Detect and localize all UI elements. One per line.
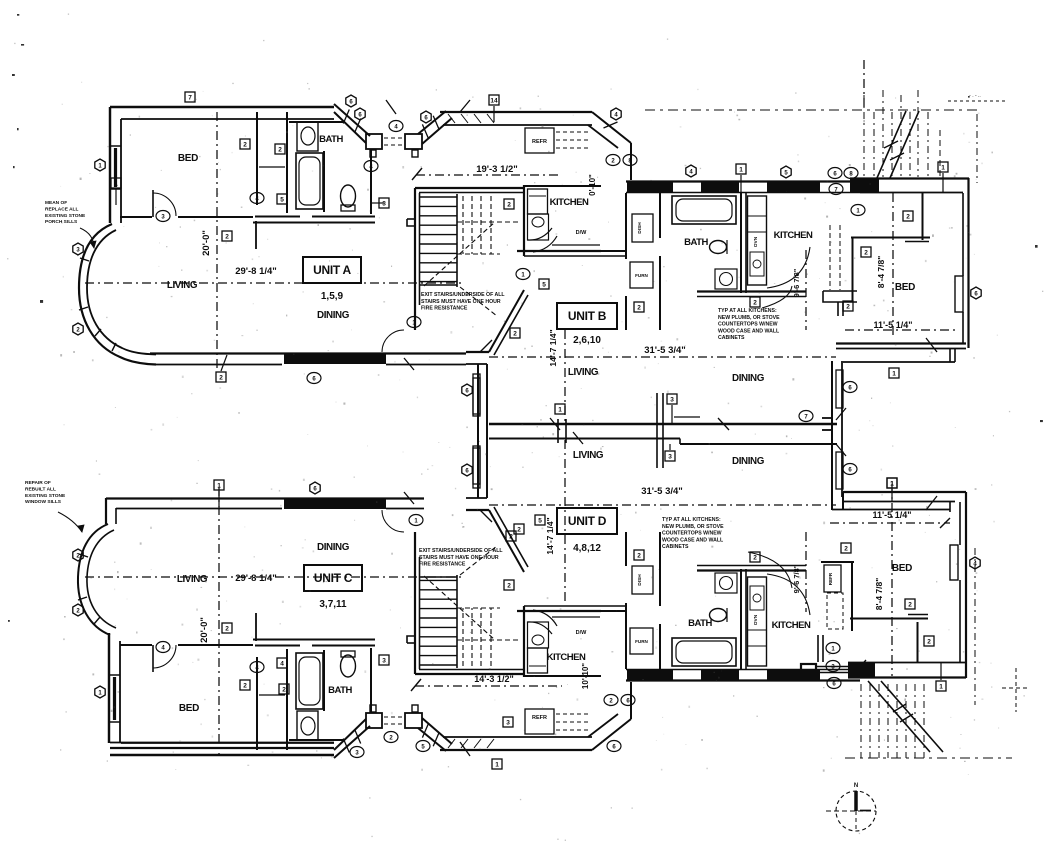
bedroom SE door block bbox=[801, 664, 816, 678]
party wall upper ledge bbox=[674, 416, 700, 418]
dimension line unit C horizontal bbox=[85, 576, 462, 578]
window marker 3 bbox=[667, 394, 677, 404]
svg-text:1,5,9: 1,5,9 bbox=[321, 291, 344, 302]
corridor end cap top bbox=[630, 143, 632, 180]
unit C bath sink bbox=[297, 711, 318, 740]
unit C left wall upper bbox=[105, 498, 107, 524]
unit A hall wall bbox=[370, 150, 372, 214]
unit B stair rail bbox=[456, 194, 458, 287]
svg-text:2: 2 bbox=[219, 375, 223, 382]
hatch NE diagonal ticks bbox=[884, 141, 898, 148]
svg-text:1: 1 bbox=[890, 481, 894, 488]
unit D stair landing dash bbox=[457, 639, 521, 641]
corridor diag down ticks bbox=[604, 122, 618, 128]
note marker 6 bbox=[843, 464, 857, 475]
svg-text:2,6,10: 2,6,10 bbox=[573, 335, 601, 346]
hatch SE dashed bottom bbox=[845, 757, 1012, 759]
bath B bottom wall bbox=[697, 290, 806, 292]
center window B/D upper bbox=[473, 374, 480, 414]
bath D sink bbox=[715, 573, 737, 593]
corridor diag down top bbox=[592, 112, 631, 143]
svg-text:REFR: REFR bbox=[532, 139, 547, 145]
unit A bath wall bbox=[323, 151, 325, 212]
svg-text:BATH: BATH bbox=[688, 618, 712, 629]
courtyard lower inner wall bbox=[832, 509, 950, 511]
svg-text:2: 2 bbox=[906, 214, 910, 221]
bath B toilet bbox=[710, 241, 727, 254]
svg-text:1: 1 bbox=[941, 165, 945, 172]
svg-text:2: 2 bbox=[243, 683, 247, 690]
center window wall D bbox=[477, 364, 479, 498]
note marker 4 bbox=[156, 642, 170, 653]
dimension line bedroom NE vertical bbox=[892, 193, 894, 336]
svg-text:FURN: FURN bbox=[635, 273, 648, 278]
window marker 5 bbox=[277, 194, 287, 204]
unit C top wall bbox=[106, 497, 424, 499]
bedroom SE counter dashed bbox=[827, 593, 843, 629]
center corner B/D bbox=[466, 351, 489, 353]
window marker 3 bbox=[379, 198, 389, 208]
svg-text:5: 5 bbox=[542, 282, 546, 289]
window marker 3 bbox=[379, 655, 389, 665]
bedroom NE right wall bbox=[967, 178, 969, 348]
unit B stair landing dash bbox=[457, 221, 521, 223]
hatch NE diagonals bbox=[877, 111, 906, 178]
door marker 1 bbox=[95, 159, 105, 171]
unit D entry diagonal wall bbox=[489, 510, 524, 572]
hatch NE top-right marks bbox=[948, 100, 1005, 102]
bedroom NE bottom wall bbox=[836, 342, 966, 344]
svg-text:STAIRS MUST HAVE ONE HOUR: STAIRS MUST HAVE ONE HOUR bbox=[419, 555, 499, 561]
bath D bottom wall bbox=[697, 569, 806, 571]
svg-text:BATH: BATH bbox=[684, 237, 708, 248]
note marker 2 bbox=[384, 732, 398, 743]
svg-text:WINDOW SILLS: WINDOW SILLS bbox=[25, 499, 62, 505]
bedroom SE interior walls bbox=[821, 561, 854, 563]
svg-text:DINING: DINING bbox=[732, 373, 765, 384]
dimension line unit A vertical bbox=[216, 112, 218, 372]
svg-text:2: 2 bbox=[637, 553, 641, 560]
dimension line unit B vertical bbox=[564, 330, 566, 422]
corridor mid right block bottom bbox=[405, 713, 422, 728]
bedroom SE right wall bbox=[965, 492, 967, 678]
window marker 3 bbox=[503, 717, 513, 727]
bath D toilet bbox=[710, 609, 727, 622]
dimension line unit D bottom bbox=[415, 685, 562, 687]
bathtub B bbox=[672, 196, 736, 224]
kitchen B bottom wall bbox=[517, 250, 601, 252]
svg-text:3,7,11: 3,7,11 bbox=[319, 599, 347, 610]
unit B stair tab bbox=[407, 219, 415, 226]
svg-text:2: 2 bbox=[846, 304, 850, 311]
svg-text:29'-8 1/4": 29'-8 1/4" bbox=[235, 266, 277, 277]
unit A bay window inner arc bbox=[87, 230, 156, 355]
svg-text:KITCHEN: KITCHEN bbox=[774, 230, 813, 241]
bedroom SE bottom wall bbox=[848, 662, 966, 664]
svg-text:FIRE RESISTANCE: FIRE RESISTANCE bbox=[421, 306, 468, 312]
door marker 2 bbox=[73, 323, 83, 335]
unit A toilet bbox=[341, 185, 356, 207]
svg-text:TYP AT ALL KITCHENS:: TYP AT ALL KITCHENS: bbox=[718, 308, 777, 314]
note marker 1 bbox=[851, 205, 865, 216]
bedroom SE bottom lintel bbox=[848, 662, 875, 678]
svg-text:TYP AT ALL KITCHENS:: TYP AT ALL KITCHENS: bbox=[662, 517, 721, 523]
dimension line right top vertical bbox=[863, 60, 865, 110]
unit A bed/bath interior walls bbox=[120, 216, 152, 218]
window marker 2 bbox=[861, 247, 871, 257]
window marker 2 bbox=[275, 144, 285, 154]
svg-text:1: 1 bbox=[558, 407, 562, 414]
note marker 1 bbox=[826, 643, 840, 654]
unit D stair left wall bbox=[414, 532, 416, 674]
note marker 2 bbox=[606, 155, 620, 166]
kitchen D top wall bbox=[524, 675, 601, 677]
note kitchens unit D arrow bbox=[748, 552, 792, 588]
bathtub D bbox=[672, 638, 736, 666]
bedroom NE window bbox=[955, 276, 963, 312]
svg-text:9'-6 7/8": 9'-6 7/8" bbox=[792, 268, 801, 297]
svg-text:UNIT B: UNIT B bbox=[568, 309, 607, 323]
unit D stair rail bbox=[456, 575, 458, 668]
window marker 2 bbox=[905, 599, 915, 609]
svg-text:3: 3 bbox=[506, 720, 510, 727]
bedroom NE top wall bbox=[850, 177, 969, 179]
svg-text:BED: BED bbox=[179, 703, 199, 714]
svg-text:WOOD CASE AND WALL: WOOD CASE AND WALL bbox=[662, 537, 724, 543]
corridor band hatch bottom bbox=[448, 739, 455, 748]
bedroom NE closet wall bbox=[852, 237, 854, 302]
door marker 1 bbox=[95, 686, 105, 698]
window marker 2 bbox=[841, 543, 851, 553]
unit A bay window outer arc bbox=[79, 224, 156, 365]
svg-text:2: 2 bbox=[225, 626, 229, 633]
party wall between units B and D bbox=[489, 423, 837, 425]
svg-text:14'-7 1/4": 14'-7 1/4" bbox=[545, 517, 555, 554]
corridor mid right block top bbox=[405, 134, 422, 149]
courtyard party wall stub bbox=[822, 417, 832, 419]
unit D stair bottom edge bbox=[419, 576, 457, 578]
hall/bath D divider wall bbox=[659, 624, 661, 669]
svg-text:1: 1 bbox=[739, 167, 743, 174]
corridor mid door dashes bottom bbox=[384, 723, 404, 725]
svg-text:29'-8 1/4": 29'-8 1/4" bbox=[235, 573, 277, 584]
corridor band top bbox=[440, 111, 592, 113]
svg-text:- . - ..: - . - .. bbox=[969, 93, 981, 99]
svg-text:OVN: OVN bbox=[753, 236, 759, 247]
bath D top wall lintels bbox=[626, 679, 860, 681]
svg-text:1: 1 bbox=[939, 684, 943, 691]
corridor wall diag top bbox=[334, 104, 370, 136]
door marker 6 bbox=[355, 108, 365, 120]
unit A left wall window bbox=[110, 145, 121, 147]
svg-text:4: 4 bbox=[280, 661, 284, 668]
svg-text:LIVING: LIVING bbox=[167, 280, 198, 291]
svg-text:FURN: FURN bbox=[635, 639, 648, 644]
door marker 4 bbox=[970, 557, 980, 569]
courtyard left windows bbox=[836, 370, 843, 408]
note bottom-left arrow bbox=[58, 512, 82, 532]
door marker 6 bbox=[971, 287, 981, 299]
window marker 1 bbox=[887, 478, 897, 488]
hall B left wall bbox=[625, 193, 627, 259]
svg-text:LIVING: LIVING bbox=[573, 450, 604, 461]
door marker 6 bbox=[310, 482, 320, 494]
svg-text:2: 2 bbox=[637, 305, 641, 312]
unit A bath top wall bbox=[289, 121, 345, 123]
window marker 14 bbox=[489, 95, 499, 105]
svg-text:2: 2 bbox=[509, 534, 513, 541]
hall D closet FURN bbox=[630, 628, 653, 654]
window marker 1 bbox=[889, 368, 899, 378]
svg-text:20'-0": 20'-0" bbox=[201, 230, 212, 256]
kitchen2 D counters bbox=[748, 577, 767, 666]
window marker 2 bbox=[903, 211, 913, 221]
unit A outer top wall bbox=[110, 106, 334, 108]
marker leader lines bbox=[493, 106, 495, 122]
note marker 3 bbox=[826, 661, 840, 672]
svg-text:REBUILT ALL: REBUILT ALL bbox=[25, 486, 56, 492]
svg-text:0'-10": 0'-10" bbox=[588, 174, 597, 196]
unit C left wall window bbox=[109, 674, 120, 676]
svg-text:2: 2 bbox=[844, 546, 848, 553]
svg-text:D/W: D/W bbox=[576, 230, 588, 236]
unit C door stub bbox=[152, 645, 154, 672]
window marker 3 bbox=[665, 451, 675, 461]
unit C left wall lower bbox=[108, 633, 110, 743]
corridor diag down bottom bbox=[592, 719, 631, 750]
note marker 7 bbox=[799, 411, 813, 422]
door marker 3 bbox=[73, 243, 83, 255]
svg-text:CABINETS: CABINETS bbox=[718, 335, 745, 341]
svg-text:1: 1 bbox=[495, 762, 499, 769]
note marker 7 bbox=[829, 184, 843, 195]
bedroom SE top wall bbox=[843, 491, 966, 493]
corridor diagonal ticks top bbox=[343, 110, 349, 124]
svg-text:COUNTERTOPS W/NEW: COUNTERTOPS W/NEW bbox=[662, 531, 722, 537]
svg-text:3: 3 bbox=[382, 658, 386, 665]
bedroom SE window bbox=[950, 545, 958, 580]
window marker 2 bbox=[279, 684, 289, 694]
unit A bathtub bbox=[296, 153, 323, 209]
svg-text:EXIT STAIRS/UNDERSIDE OF ALL: EXIT STAIRS/UNDERSIDE OF ALL bbox=[421, 292, 505, 298]
unit B entry diagonal wall bbox=[489, 290, 524, 352]
svg-text:KITCHEN: KITCHEN bbox=[550, 197, 589, 208]
svg-text:1: 1 bbox=[892, 371, 896, 378]
svg-text:3: 3 bbox=[382, 201, 386, 208]
kitchen2 B door arc bbox=[767, 247, 810, 288]
note marker 6 bbox=[607, 741, 621, 752]
svg-text:14: 14 bbox=[490, 98, 498, 105]
note kitchens unit B arrow bbox=[762, 286, 792, 308]
note marker 5 bbox=[416, 741, 430, 752]
unit B stair diagonal dash bbox=[424, 222, 495, 286]
note marker 3 bbox=[350, 747, 364, 758]
svg-text:STAIRS MUST HAVE ONE HOUR: STAIRS MUST HAVE ONE HOUR bbox=[421, 299, 501, 305]
svg-text:31'-5 3/4": 31'-5 3/4" bbox=[644, 345, 686, 356]
window marker 2 bbox=[634, 550, 644, 560]
svg-text:8'-4 7/8": 8'-4 7/8" bbox=[874, 578, 884, 611]
window marker 2 bbox=[504, 199, 514, 209]
note marker 6 bbox=[843, 382, 857, 393]
svg-text:14'-3 1/2": 14'-3 1/2" bbox=[474, 674, 513, 684]
kitchen D fridge bbox=[528, 648, 548, 673]
unit B stair left wall bbox=[414, 188, 416, 330]
dimension line kitchen2 D vertical bbox=[805, 532, 807, 612]
dimension line bedroom SE horizontal bbox=[830, 522, 950, 524]
svg-text:N: N bbox=[854, 783, 858, 789]
svg-text:2: 2 bbox=[282, 687, 286, 694]
svg-text:5: 5 bbox=[280, 197, 284, 204]
window marker 1 bbox=[887, 478, 897, 488]
svg-text:BATH: BATH bbox=[328, 685, 352, 696]
compass rose bbox=[826, 783, 876, 831]
kitchen B top wall bbox=[524, 185, 601, 187]
note marker 8 bbox=[623, 155, 637, 166]
svg-text:OVN: OVN bbox=[753, 614, 759, 625]
dimension line kitchen2 B vertical bbox=[805, 250, 807, 330]
unit A closet wall bbox=[256, 112, 258, 205]
unit C bay window mullions bbox=[79, 554, 88, 557]
window marker 2 bbox=[750, 552, 760, 562]
window marker 1 bbox=[936, 681, 946, 691]
dimension line unit C vertical bbox=[218, 487, 220, 755]
window marker 1 bbox=[736, 164, 746, 174]
door arc unit C living bbox=[382, 510, 404, 532]
note marker 1 bbox=[409, 515, 423, 526]
kitchen B left wall bbox=[523, 185, 525, 256]
kitchen B sink counter bbox=[528, 214, 549, 240]
door marker 4 bbox=[611, 108, 621, 120]
svg-text:1: 1 bbox=[114, 181, 118, 188]
hall/bath B divider wall bbox=[659, 193, 661, 238]
dimension line unit B living horizontal bbox=[489, 356, 836, 358]
door arc unit A bed bbox=[153, 193, 176, 216]
svg-text:2: 2 bbox=[513, 331, 517, 338]
svg-text:LIVING: LIVING bbox=[568, 367, 599, 378]
refr closet bottom bbox=[525, 709, 554, 734]
svg-text:31'-5 3/4": 31'-5 3/4" bbox=[641, 486, 683, 497]
door marker 6 bbox=[346, 95, 356, 107]
svg-text:2: 2 bbox=[517, 527, 521, 534]
svg-text:MEAN OF: MEAN OF bbox=[45, 200, 67, 206]
svg-text:BED: BED bbox=[895, 282, 915, 293]
svg-text:BED: BED bbox=[892, 563, 912, 574]
svg-text:7: 7 bbox=[188, 95, 192, 102]
svg-text:D/W: D/W bbox=[576, 630, 588, 636]
hatch SE diagonal ticks bbox=[893, 704, 906, 712]
note marker 3 bbox=[156, 211, 170, 222]
window marker 7 bbox=[185, 92, 195, 102]
svg-text:2: 2 bbox=[864, 250, 868, 257]
center corner D bbox=[466, 509, 489, 511]
unit C closet wall bbox=[256, 657, 258, 750]
door marker 6 bbox=[462, 384, 472, 396]
svg-text:1: 1 bbox=[217, 483, 221, 490]
corridor end cap bottom bbox=[630, 682, 632, 719]
bath/kitchen B divider bbox=[740, 193, 742, 293]
svg-text:2: 2 bbox=[908, 602, 912, 609]
dimension line unit D living horizontal bbox=[489, 504, 836, 506]
courtyard right upper inner wall bbox=[843, 361, 955, 363]
svg-text:2: 2 bbox=[753, 300, 757, 307]
svg-text:DISH: DISH bbox=[637, 222, 643, 234]
door marker 6 bbox=[462, 464, 472, 476]
kitchen D sink counter bbox=[528, 622, 549, 648]
svg-text:11'-5 1/4": 11'-5 1/4" bbox=[874, 320, 913, 330]
dimension line unit A horizontal bbox=[85, 282, 462, 284]
unit B stair enclosure top wall bbox=[415, 187, 523, 189]
svg-text:3: 3 bbox=[668, 454, 672, 461]
party wall break bars bbox=[557, 419, 559, 443]
window marker 4 bbox=[277, 658, 287, 668]
hall D closet DISH bbox=[632, 566, 653, 594]
center window wall B/D bbox=[477, 364, 479, 498]
hatch SE diagonals bbox=[868, 681, 930, 752]
kitchen D corner counter bbox=[528, 622, 553, 634]
unit B stair treads bbox=[420, 196, 457, 198]
dimension line bedroom SE vertical bbox=[891, 484, 893, 676]
center window B/D lower bbox=[473, 446, 480, 484]
svg-text:8'-4 7/8": 8'-4 7/8" bbox=[876, 256, 886, 289]
svg-text:2: 2 bbox=[225, 234, 229, 241]
door marker 2 bbox=[73, 549, 83, 561]
door marker 5 bbox=[781, 166, 791, 178]
svg-text:UNIT D: UNIT D bbox=[568, 514, 607, 528]
bedroom SE refr bbox=[824, 565, 841, 592]
unit C hall bottom outer bbox=[253, 639, 375, 641]
svg-text:DISH: DISH bbox=[637, 574, 643, 586]
svg-text:COUNTERTOPS W/NEW: COUNTERTOPS W/NEW bbox=[718, 322, 778, 328]
svg-text:10'-10": 10'-10" bbox=[581, 663, 590, 689]
svg-text:EXISTING STONE: EXISTING STONE bbox=[25, 493, 66, 499]
svg-text:2: 2 bbox=[278, 147, 282, 154]
unit A title box bbox=[303, 257, 361, 283]
hall B closet DISH bbox=[632, 214, 653, 242]
hall B closet FURN bbox=[630, 262, 653, 288]
door marker 4 bbox=[686, 165, 696, 177]
window marker 2 bbox=[634, 302, 644, 312]
svg-text:3: 3 bbox=[670, 397, 674, 404]
svg-text:DINING: DINING bbox=[317, 310, 350, 321]
corridor band bottom bbox=[440, 749, 592, 751]
kitchen B counter edge bbox=[552, 244, 600, 246]
corridor wall diag up bottom bbox=[422, 718, 452, 744]
corridor tab bottom bbox=[370, 705, 376, 712]
hatch NE top dashed line bbox=[645, 109, 982, 111]
kitchen2 B counters bbox=[748, 196, 767, 285]
door arc unit C bed bbox=[153, 645, 176, 668]
unit B stair bottom edge bbox=[419, 284, 457, 286]
note marker 6 bbox=[828, 168, 842, 179]
note marker 2 bbox=[604, 695, 618, 706]
window marker 2 bbox=[240, 680, 250, 690]
unit D stair enclosure top wall bbox=[415, 673, 523, 675]
unit A bottom wall bbox=[150, 352, 466, 354]
unit C outer top wall bbox=[110, 754, 334, 756]
svg-text:BED: BED bbox=[178, 153, 198, 164]
window marker 5 bbox=[539, 279, 549, 289]
svg-text:11'-5 1/4": 11'-5 1/4" bbox=[873, 510, 912, 520]
note marker 1 bbox=[516, 269, 530, 280]
note marker 4 bbox=[364, 161, 378, 172]
bedroom SE left stub bbox=[817, 635, 819, 662]
svg-text:2: 2 bbox=[753, 555, 757, 562]
hatch NE dashed verticals bbox=[863, 95, 865, 177]
svg-text:FIRE RESISTANCE: FIRE RESISTANCE bbox=[419, 562, 466, 568]
corridor diagonal ticks bottom bbox=[343, 739, 349, 753]
window marker 1 bbox=[555, 404, 565, 414]
note marker 4 bbox=[250, 193, 264, 204]
